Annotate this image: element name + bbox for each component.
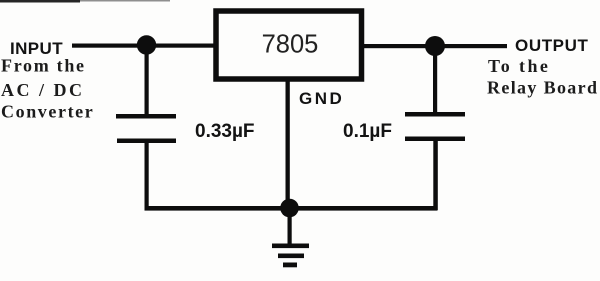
ground bbox=[272, 244, 309, 268]
node: input junction bbox=[137, 35, 156, 54]
svg-text:0.33µF: 0.33µF bbox=[195, 121, 255, 142]
wire: ground node to ground symbol bbox=[288, 214, 292, 244]
wire: node to output lead bbox=[443, 44, 507, 48]
wire: capacitor C1 down to bottom rail bbox=[145, 143, 149, 210]
wire: regulator GND pin down to ground node bbox=[286, 81, 290, 201]
wire: capacitor C2 down to bottom rail bbox=[433, 141, 438, 210]
svg-text:AC / DC: AC / DC bbox=[1, 80, 85, 100]
svg-text:OUTPUT: OUTPUT bbox=[515, 36, 588, 55]
wire: regulator output pin to node bbox=[364, 44, 427, 48]
svg-text:Converter: Converter bbox=[1, 102, 94, 122]
svg-text:0.1µF: 0.1µF bbox=[343, 121, 392, 142]
label: From the AC / DC Converter bbox=[1, 56, 94, 122]
svg-text:From the: From the bbox=[1, 56, 86, 76]
svg-text:Relay Board: Relay Board bbox=[487, 78, 598, 98]
label: To the Relay Board bbox=[487, 56, 598, 98]
wire: output node down to capacitor C2 bbox=[433, 54, 437, 112]
svg-text:To the: To the bbox=[488, 56, 550, 76]
wire: input node down to capacitor C1 bbox=[145, 50, 149, 115]
svg-text:GND: GND bbox=[299, 89, 344, 108]
regulator U1 7805 bbox=[216, 11, 362, 79]
node: ground junction bbox=[280, 199, 299, 218]
wire: input lead to node bbox=[72, 44, 142, 48]
capacitor C2 bbox=[405, 112, 465, 141]
svg-text:7805: 7805 bbox=[262, 31, 319, 59]
wire: node to regulator input pin bbox=[153, 44, 216, 48]
wire: bottom ground rail bbox=[145, 206, 438, 211]
node: output junction bbox=[425, 36, 445, 56]
capacitor C1 bbox=[116, 114, 176, 143]
